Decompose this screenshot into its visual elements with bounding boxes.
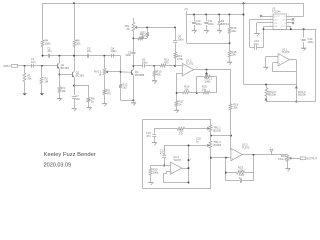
svg-text:−: −: [183, 73, 185, 76]
svg-text:BAT41: BAT41: [221, 22, 230, 26]
svg-text:OUTPUT: OUTPUT: [306, 157, 317, 161]
svg-text:+: +: [70, 96, 72, 98]
svg-text:1M: 1M: [44, 80, 48, 84]
svg-text:22n: 22n: [87, 49, 92, 53]
svg-text:CAP-: CAP-: [274, 25, 278, 28]
svg-text:10k: 10k: [233, 105, 238, 109]
svg-text:B100k: B100k: [268, 93, 276, 97]
svg-text:43k: 43k: [156, 72, 161, 76]
svg-text:INPUT: INPUT: [3, 65, 11, 68]
svg-text:100n: 100n: [178, 37, 184, 41]
svg-text:10k: 10k: [140, 35, 145, 39]
svg-text:+: +: [300, 38, 302, 40]
svg-text:2k2: 2k2: [122, 85, 127, 89]
svg-text:B100k: B100k: [214, 143, 222, 147]
svg-text:100u: 100u: [308, 40, 314, 44]
svg-text:−: −: [232, 150, 234, 153]
svg-text:100n: 100n: [111, 49, 117, 53]
svg-text:10k: 10k: [76, 42, 81, 46]
svg-text:10k: 10k: [202, 87, 207, 91]
svg-text:TL072: TL072: [282, 50, 290, 54]
svg-text:10u: 10u: [254, 42, 259, 46]
svg-text:BC183: BC183: [76, 74, 85, 78]
svg-text:2N5089: 2N5089: [135, 73, 145, 77]
svg-text:47n: 47n: [160, 152, 165, 156]
svg-text:Keeley Fuzz Bender: Keeley Fuzz Bender: [44, 152, 96, 158]
svg-text:BOOST: BOOST: [274, 16, 280, 18]
svg-text:470: 470: [106, 91, 111, 95]
svg-text:47n: 47n: [146, 134, 151, 138]
svg-text:7: 7: [196, 67, 198, 69]
svg-text:OSC: OSC: [282, 19, 286, 21]
svg-text:100u: 100u: [196, 22, 202, 26]
svg-text:B100k: B100k: [298, 93, 306, 97]
svg-text:470k: 470k: [177, 57, 183, 61]
svg-text:10k: 10k: [231, 29, 236, 33]
svg-text:2020.03.09: 2020.03.09: [44, 163, 72, 169]
svg-text:10n: 10n: [31, 60, 36, 64]
svg-text:VOL-A: VOL-A: [278, 157, 286, 161]
svg-text:−: −: [171, 163, 173, 166]
svg-text:100k: 100k: [153, 171, 159, 175]
svg-text:+9V: +9V: [184, 7, 189, 11]
svg-text:1u: 1u: [196, 140, 199, 144]
svg-text:B100k: B100k: [213, 129, 221, 133]
svg-text:100n: 100n: [208, 22, 214, 26]
svg-text:100k: 100k: [205, 79, 211, 83]
svg-text:100n: 100n: [125, 53, 131, 57]
svg-text:1: 1: [190, 159, 191, 161]
svg-text:VOUT: VOUT: [281, 26, 286, 28]
svg-text:+: +: [279, 63, 281, 66]
svg-text:100k: 100k: [238, 169, 244, 173]
svg-text:GND: GND: [274, 23, 279, 25]
svg-text:10k: 10k: [61, 89, 66, 93]
svg-text:1k: 1k: [99, 72, 102, 76]
svg-text:TC1044: TC1044: [272, 11, 281, 14]
svg-text:TL072: TL072: [173, 158, 181, 162]
svg-text:75k: 75k: [27, 77, 32, 81]
svg-text:470: 470: [164, 61, 169, 65]
svg-text:TL072: TL072: [242, 145, 250, 149]
svg-text:100n: 100n: [142, 61, 148, 65]
svg-text:CAP+: CAP+: [274, 18, 278, 21]
svg-text:V+: V+: [284, 16, 286, 18]
svg-text:+: +: [232, 157, 234, 160]
svg-text:100k: 100k: [45, 42, 51, 46]
svg-text:+: +: [190, 22, 192, 24]
svg-text:−: −: [279, 55, 281, 58]
svg-text:TL072: TL072: [186, 61, 194, 65]
svg-text:2k: 2k: [127, 27, 130, 31]
svg-text:10k: 10k: [231, 53, 236, 57]
svg-text:47u: 47u: [47, 49, 52, 53]
svg-text:10u: 10u: [75, 97, 80, 101]
svg-text:1n: 1n: [239, 176, 242, 180]
svg-text:LV: LV: [284, 23, 287, 25]
svg-text:BC183: BC183: [61, 66, 70, 70]
svg-text:10k: 10k: [184, 87, 189, 91]
svg-text:+: +: [171, 171, 173, 174]
svg-text:27k: 27k: [179, 132, 184, 136]
